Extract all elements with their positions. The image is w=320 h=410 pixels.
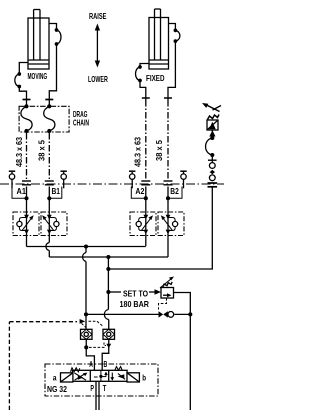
svg-text:MOVING: MOVING <box>28 72 48 81</box>
wire B-branch into orifice S2 <box>108 320 110 330</box>
wire bus A (A1 to A2) <box>27 246 146 248</box>
wire port P down <box>95 381 97 410</box>
node B2 <box>166 187 182 213</box>
node relief tap <box>106 290 110 294</box>
svg-text:SET TO: SET TO <box>123 288 148 298</box>
svg-text:48.3 x 63: 48.3 x 63 <box>133 136 142 167</box>
wire: fixed rod-side port <box>169 24 176 31</box>
wire: fixed piston-side down to A2 <box>140 81 146 101</box>
wire bus B (B1 to B2) <box>49 256 168 258</box>
bulkhead ticks A2 <box>141 181 150 185</box>
pipe chain line A1 <box>26 133 28 181</box>
svg-text:b: b <box>142 372 146 382</box>
svg-text:A1: A1 <box>17 187 27 196</box>
fitting tick A1 top <box>23 99 31 101</box>
fitting tick B1 top <box>45 99 53 101</box>
svg-text:T: T <box>103 384 107 393</box>
svg-text:B2: B2 <box>170 187 179 196</box>
svg-text:B1: B1 <box>52 187 61 196</box>
fitting tick B2 top <box>164 97 172 99</box>
pilot check valve V1 (A1 line) <box>13 212 39 247</box>
wire B-branch hop over needle line <box>104 310 108 320</box>
hose to moving cylinder rod side <box>55 28 61 46</box>
pilot check valve V2 (B1 line) <box>41 212 67 243</box>
pilot dashed hook at S2 <box>104 343 106 346</box>
U1 left position crossed arrows <box>75 373 88 381</box>
spring right <box>115 367 122 371</box>
svg-text:a: a <box>53 372 57 382</box>
wire: moving piston-side port <box>19 63 28 75</box>
node A2 <box>131 187 148 213</box>
node A-branch / needle line junction <box>84 312 88 316</box>
svg-text:CHAIN: CHAIN <box>73 118 89 128</box>
wire S1 to valve port A <box>86 339 94 370</box>
wire relief output <box>174 293 191 410</box>
wire: moving piston-side down to drag chain <box>19 87 26 107</box>
NG32 manifold enclosure <box>45 364 158 396</box>
test point right of B2 <box>180 171 186 188</box>
wire: fixed piston-side port <box>140 64 149 68</box>
pipe chain line B2 <box>167 100 169 181</box>
node B1 <box>47 187 62 213</box>
solenoid b <box>127 372 146 382</box>
wire test line (to couplings at right) <box>108 186 212 269</box>
wire B1 down to bus B <box>48 251 50 258</box>
shutoff valve (bowtie) <box>159 311 174 317</box>
relief valve feed arrow + SET TO label <box>108 288 161 309</box>
svg-text:NG 32: NG 32 <box>47 385 67 394</box>
test point right of B1 <box>61 171 67 188</box>
pipe chain line A2 <box>145 100 147 181</box>
fitting tick A2 top <box>142 97 150 99</box>
system boundary chain line <box>0 183 224 185</box>
svg-text:RAISE: RAISE <box>89 11 107 21</box>
pipe chain line B1 <box>48 133 50 181</box>
svg-text:38 x 5: 38 x 5 <box>37 139 46 161</box>
pilot check valve V3 (A2 line) <box>130 212 156 246</box>
node A1 <box>12 187 29 213</box>
node bus B tap <box>106 255 110 259</box>
wire: moving rod-side port <box>49 24 57 31</box>
flow arrow on S2 pilot <box>106 344 111 349</box>
wire port T down <box>98 381 100 410</box>
pilot dashed tie S1-S2 <box>89 346 106 348</box>
cylinder FIXED body <box>149 9 169 69</box>
relief pilot dashed <box>159 298 167 310</box>
label DRAG CHAIN <box>73 109 89 128</box>
svg-text:B: B <box>104 360 108 369</box>
pilot dashed from pump station <box>9 319 103 410</box>
wire A-branch down (x86) with hop over bus B <box>83 247 86 330</box>
svg-text:LOWER: LOWER <box>88 74 108 84</box>
hose to moving cylinder piston side <box>15 72 21 88</box>
wire: fixed rod-side down to B2 <box>168 41 175 100</box>
node S1 pilot <box>84 345 88 349</box>
svg-text:48.3 x 63: 48.3 x 63 <box>15 136 24 167</box>
needle line wire <box>86 313 159 315</box>
pilot check valve V4 (B2 line) <box>158 212 184 257</box>
test point left of A1 <box>9 171 15 188</box>
wire hose to bleed valve <box>211 130 213 138</box>
test point left of A2 <box>129 171 135 188</box>
hose to fixed cylinder piston side <box>136 65 142 82</box>
wire: moving rod-side down to drag chain <box>49 44 56 106</box>
hose on test line <box>206 136 215 157</box>
svg-text:A2: A2 <box>135 187 144 196</box>
node relief output / needle line <box>188 312 192 316</box>
cylinder MOVING body <box>28 10 49 70</box>
spring left <box>71 368 80 372</box>
svg-text:38 x 5: 38 x 5 <box>155 139 164 161</box>
svg-text:FIXED: FIXED <box>146 74 165 83</box>
directional valve U1 body <box>73 370 128 381</box>
U1 centre position blocked ports <box>94 370 108 381</box>
flexible hose S in drag chain (left) <box>21 104 32 133</box>
orifice S2 <box>103 329 115 339</box>
drag chain enclosure <box>19 106 69 132</box>
bulkhead ticks B2 <box>164 181 173 185</box>
flexible hose S in drag chain (right) <box>44 104 55 133</box>
bulkhead ticks A1 <box>22 181 31 185</box>
node bus A tap <box>84 244 88 248</box>
node test line tap <box>106 267 110 271</box>
svg-text:180 BAR: 180 BAR <box>120 299 149 309</box>
bleed valve (top right) <box>202 103 221 137</box>
wire B-branch down (x108.4) <box>107 257 109 310</box>
hose to fixed cylinder rod side <box>174 29 180 43</box>
quick couplings on test line <box>208 156 218 187</box>
wire B1 hop over bus A <box>46 243 49 251</box>
relief valve <box>160 277 174 299</box>
svg-text:P: P <box>90 384 94 393</box>
solenoid a <box>53 372 73 382</box>
raise/lower double arrow <box>95 24 100 68</box>
orifice S1 <box>81 329 93 339</box>
U1 right position arrows <box>110 373 125 381</box>
wire S2 to valve port B <box>102 339 109 370</box>
svg-text:A: A <box>89 360 93 369</box>
bulkhead ticks B1 <box>45 181 54 185</box>
